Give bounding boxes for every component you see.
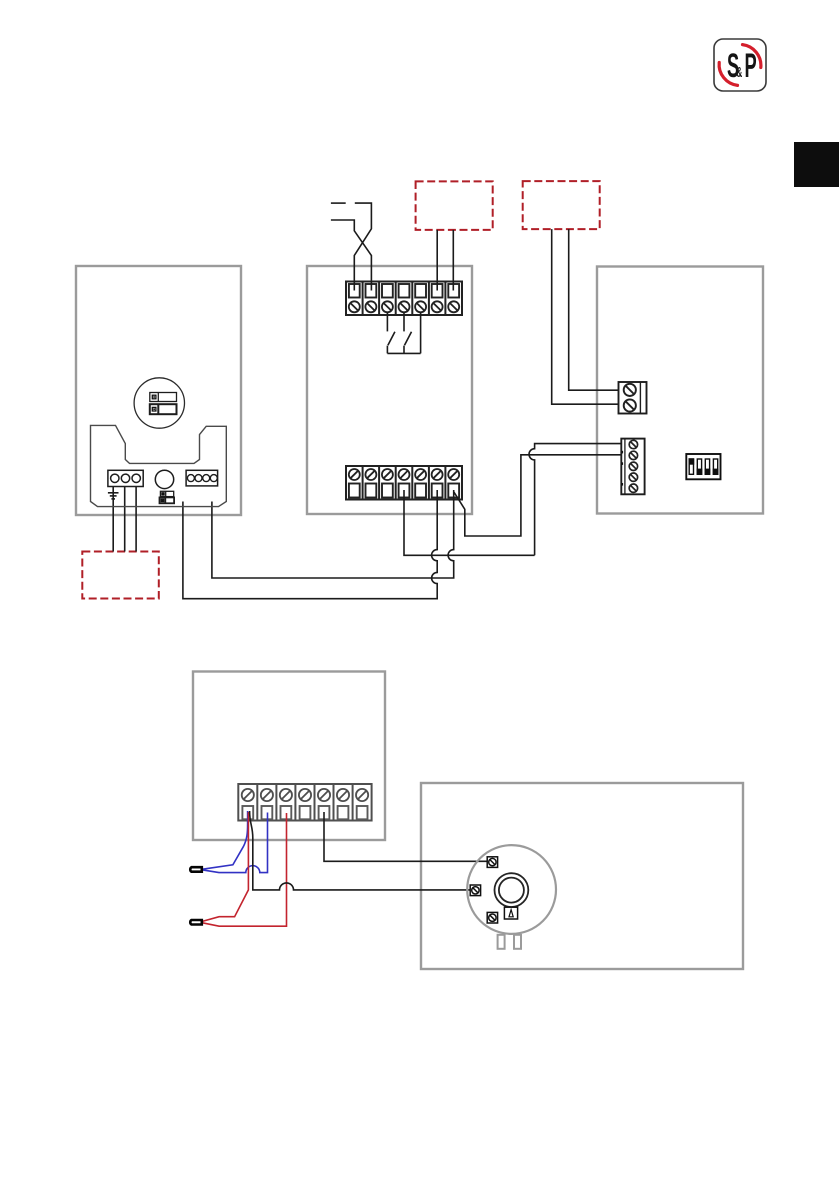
svg-text:P: P <box>744 46 756 85</box>
svg-text:&: & <box>737 63 743 80</box>
